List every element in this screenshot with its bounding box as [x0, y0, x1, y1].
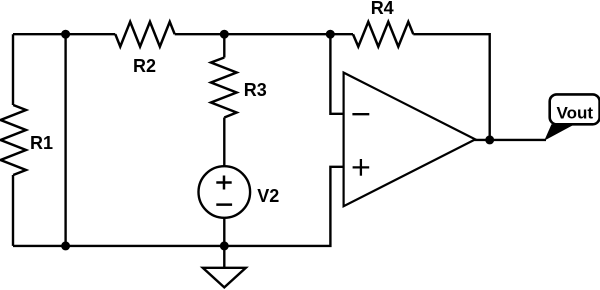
wire left rail upper segment	[12, 34, 14, 105]
V2 plus symbol	[216, 176, 231, 190]
wire top rail left segment (node from R1 top to R2)	[13, 33, 115, 35]
resistor R3	[211, 58, 237, 118]
ground symbol	[203, 268, 246, 288]
node junction dot R3 branch	[221, 31, 228, 38]
resistor R2	[115, 22, 174, 47]
Vout label bubble	[550, 94, 600, 124]
V2 minus symbol	[216, 203, 232, 206]
wire op-amp output	[475, 139, 547, 141]
wire op-amp minus input drop	[330, 34, 344, 114]
op-amp plus input symbol	[353, 159, 370, 176]
node junction dot bottom inner vertical	[62, 243, 69, 250]
svg-text:Vout: Vout	[557, 103, 594, 122]
wire R3 top stub	[223, 34, 225, 57]
wire R3 to V2	[223, 118, 225, 167]
wire bottom rail and op-amp plus input riser	[13, 167, 344, 246]
svg-text:R4: R4	[371, 0, 394, 18]
node junction dot ground	[221, 243, 228, 250]
svg-text:R3: R3	[244, 80, 267, 100]
svg-text:R2: R2	[133, 56, 156, 76]
node junction dot output	[486, 137, 493, 144]
node junction dot R4 / minus input branch	[327, 31, 334, 38]
wire left rail lower segment	[12, 175, 14, 246]
resistor R1	[1, 105, 26, 175]
wire top rail middle segment (R2 to R4)	[175, 33, 353, 35]
wire top rail right segment and right vertical feedback drop	[413, 34, 489, 140]
op-amp minus input symbol	[352, 113, 369, 115]
wire V2 to bottom rail	[223, 218, 225, 246]
node junction dot top-left	[62, 31, 69, 38]
svg-text:R1: R1	[30, 133, 53, 153]
wire ground stub	[223, 246, 225, 268]
svg-text:V2: V2	[257, 186, 279, 206]
Vout label tail	[544, 124, 575, 140]
voltage source V2 circle	[199, 166, 251, 218]
wire inner vertical (R1 parallel branch)	[64, 34, 66, 246]
op-amp U1 triangle	[344, 73, 476, 207]
resistor R4	[353, 22, 413, 47]
